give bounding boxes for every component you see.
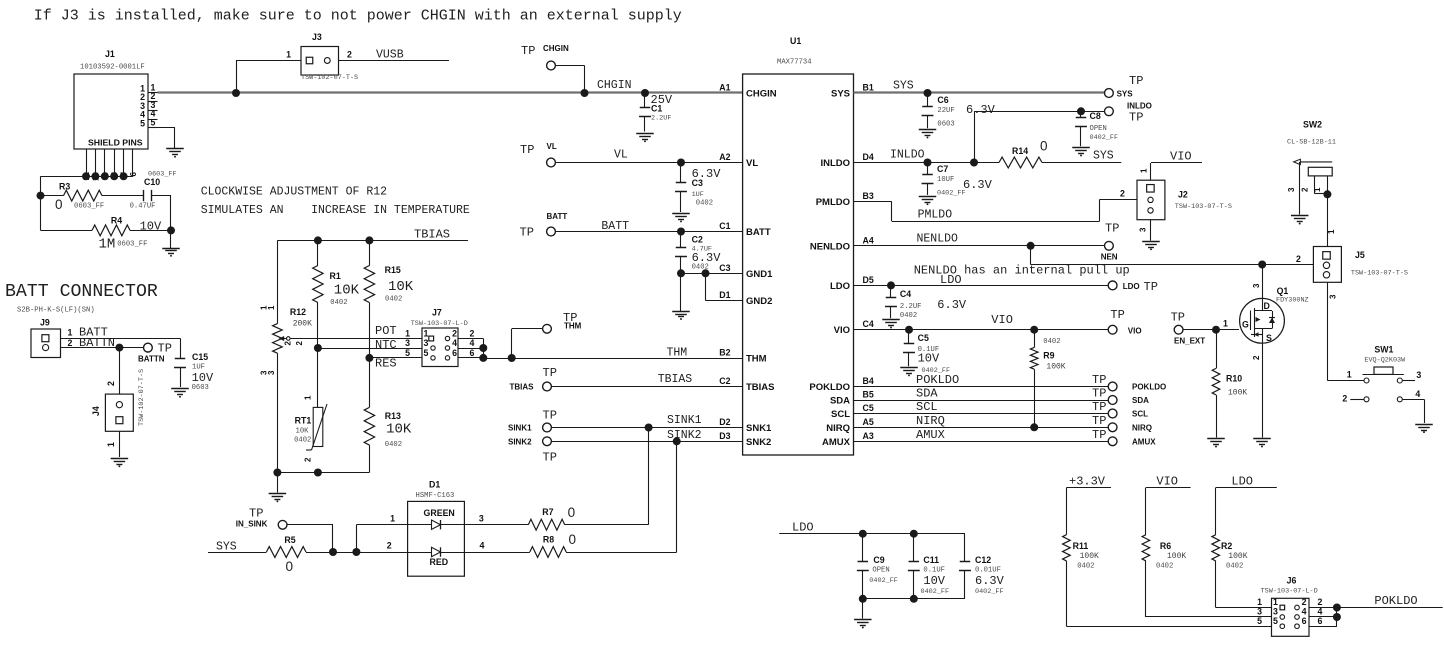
wire POKLDO net [854,386,1109,388]
svg-text:SINK2: SINK2 [667,429,702,442]
R12 wiper arrow [282,338,286,340]
led D1 green element [408,524,465,526]
svg-text:C3: C3 [719,263,730,273]
svg-text:MAX77734: MAX77734 [777,59,812,67]
wire D1 pin4 to R8 [464,552,529,554]
svg-text:CLOCKWISE ADJUSTMENT OF R12: CLOCKWISE ADJUSTMENT OF R12 [201,185,387,198]
svg-text:1: 1 [286,50,291,60]
svg-text:100K: 100K [1167,552,1186,561]
svg-text:2: 2 [1296,254,1301,264]
svg-text:C2: C2 [719,376,730,386]
svg-text:C4: C4 [863,319,874,329]
svg-text:R10: R10 [1226,374,1242,384]
wire SINK2 down to R8 [676,441,678,552]
svg-text:CHGIN: CHGIN [543,44,569,53]
ground (C3) [672,213,690,215]
svg-text:SDA: SDA [830,396,850,407]
wire LDO cap bus [779,533,965,535]
J1 pin 5 stub [148,127,158,129]
node LDO-C4 junction [887,281,895,289]
node SINK1-R7 junction [645,424,653,432]
svg-text:0.47UF: 0.47UF [130,202,156,210]
svg-text:3: 3 [424,338,429,348]
node C11 bottom junction [910,595,918,603]
wire R12 lower [277,353,279,472]
ground (SW1) [1415,424,1433,426]
wire NENLDO net [854,245,1105,247]
resistor R2 100K 0402 [1212,535,1220,561]
svg-text:R9: R9 [1043,351,1054,361]
wire J7 pin2 jog [458,338,483,340]
svg-text:TP: TP [1171,311,1185,325]
svg-text:TP: TP [520,143,534,157]
svg-text:D5: D5 [863,275,874,285]
svg-text:1: 1 [106,442,116,447]
svg-text:2: 2 [470,329,475,339]
svg-text:CL-SB-12B-11: CL-SB-12B-11 [1287,139,1336,147]
wire EN_EXT to Q1 gate [1183,329,1239,331]
svg-text:0603: 0603 [937,121,954,129]
svg-text:OPEN: OPEN [1090,125,1107,133]
J1 pin 4 stub [148,119,158,121]
wire R3 left [41,195,64,197]
svg-text:200K: 200K [293,320,312,329]
wire R3-C10 [102,195,144,197]
svg-text:TP: TP [1092,414,1106,428]
svg-text:SCL: SCL [1132,410,1148,419]
wire SYS to R5 [208,552,266,554]
wire R4 right [130,230,171,232]
svg-text:S: S [1266,333,1272,343]
svg-text:C15: C15 [192,352,208,362]
svg-text:TP: TP [1144,280,1158,294]
node R4-C10 junction [167,226,175,234]
svg-text:R4: R4 [111,216,122,226]
svg-text:RED: RED [430,557,449,567]
ground (divider) [269,493,287,495]
svg-text:J5: J5 [1355,250,1365,260]
ground (C2/GND) [672,311,690,313]
svg-text:SW1: SW1 [1374,345,1393,355]
svg-text:C2: C2 [692,235,703,245]
svg-text:R3: R3 [59,182,70,192]
wire R6 to J6 pin3 [1146,616,1272,618]
svg-text:SDA: SDA [916,387,938,401]
J1 pin 3 stub [148,110,158,112]
svg-text:C7: C7 [937,164,948,174]
svg-text:10K: 10K [334,283,360,299]
wire LDO stub [1216,487,1277,489]
resistor R9 100K 0402 [1034,330,1036,348]
svg-text:SW2: SW2 [1303,120,1322,130]
svg-text:A2: A2 [719,152,730,162]
node NENLDO junction [1027,242,1035,250]
svg-text:CHGIN: CHGIN [746,89,777,100]
svg-text:SHIELD PINS: SHIELD PINS [88,138,143,148]
wire J2 pin3 to ground [1150,220,1152,241]
svg-text:G: G [1242,320,1249,330]
svg-text:SYS: SYS [831,89,850,100]
svg-text:VL: VL [547,142,557,151]
svg-text:C1: C1 [719,221,730,231]
node EN_EXT-R10 junction [1212,326,1220,334]
svg-text:0402: 0402 [330,299,347,307]
svg-text:0402: 0402 [1226,563,1243,571]
svg-text:2: 2 [347,50,352,60]
svg-text:GND1: GND1 [746,269,773,280]
node LDO-C9 junction [859,530,867,538]
svg-text:J9: J9 [40,318,50,328]
svg-text:C6: C6 [937,95,948,105]
svg-text:D1: D1 [719,290,730,300]
svg-text:0: 0 [569,532,577,547]
svg-text:2: 2 [106,381,116,386]
svg-text:D1: D1 [429,480,440,490]
svg-text:POT: POT [375,324,397,338]
ground (C15) [171,388,189,390]
wire THM net [483,358,742,360]
wire VIO stub at J2 [1151,162,1202,164]
svg-text:THM: THM [667,347,688,360]
svg-text:0402_FF: 0402_FF [869,577,898,585]
svg-text:0402: 0402 [1043,338,1060,346]
svg-text:0402: 0402 [1077,563,1094,571]
svg-text:10K: 10K [386,422,412,438]
potentiometer R12 200K [273,324,283,354]
capacitor C15 1UF 10V 0603 [180,338,182,358]
svg-text:0603: 0603 [192,384,209,392]
resistor R11 100K 0402 [1063,535,1071,561]
svg-text:TP: TP [1092,373,1106,387]
svg-text:POKLDO: POKLDO [809,382,850,393]
svg-text:J6: J6 [1287,576,1297,586]
wire INLDO net [854,162,1000,164]
svg-text:10K: 10K [388,279,414,295]
svg-text:TP: TP [1129,111,1143,125]
wire R5 to D1 [306,552,408,554]
svg-text:TP: TP [1092,387,1106,401]
svg-text:1: 1 [1140,168,1149,173]
svg-text:2: 2 [452,329,457,339]
svg-text:NENLDO: NENLDO [810,241,850,252]
svg-text:SYS: SYS [1117,90,1134,99]
svg-text:TSW-103-07-T-S: TSW-103-07-T-S [1351,270,1408,278]
svg-text:10K: 10K [296,428,310,436]
svg-text:1: 1 [1257,597,1262,607]
svg-text:22UF: 22UF [937,107,954,115]
svg-text:B5: B5 [863,390,874,400]
node SYS-C6 junction [924,89,932,97]
ground (R10) [1207,438,1225,440]
node RES junction [365,354,373,362]
svg-text:6: 6 [452,348,457,358]
ground (C1) [636,133,654,135]
svg-text:SYS: SYS [893,80,914,93]
J1 shield pin 11 [86,149,88,176]
svg-text:POKLDO: POKLDO [1132,383,1166,392]
svg-text:NIRQ: NIRQ [1132,423,1152,432]
svg-text:D: D [1264,301,1270,311]
svg-text:SINK2: SINK2 [508,437,532,446]
resistor R8 0 [530,547,566,558]
svg-text:TP: TP [521,44,535,58]
svg-text:A5: A5 [863,417,874,427]
svg-text:TP: TP [543,409,557,423]
svg-text:AMUX: AMUX [1132,437,1156,446]
svg-text:A4: A4 [863,235,874,245]
svg-text:TSW-103-07-T-S: TSW-103-07-T-S [1175,203,1232,211]
svg-text:1: 1 [1313,187,1322,192]
capacitor C8 OPEN 0402_FF [1080,111,1082,117]
svg-text:SCL: SCL [831,409,850,420]
svg-text:0: 0 [1040,139,1048,154]
svg-text:SDA: SDA [1132,396,1149,405]
svg-text:2: 2 [1318,597,1323,607]
node NEN-Q1 junction [1258,261,1266,269]
capacitor C5 0.1UF 10V 0402_FF [908,330,910,344]
ground (C7) [919,196,937,198]
svg-text:VL: VL [746,158,758,169]
svg-text:1: 1 [1347,370,1352,380]
svg-text:R14: R14 [1012,146,1028,156]
svg-text:1: 1 [424,329,429,339]
svg-text:INLDO: INLDO [820,158,850,169]
svg-text:TP: TP [543,366,557,380]
wire J3 pin1 to CHGIN net [236,61,238,94]
svg-text:C3: C3 [692,178,703,188]
J1 pin5 wire to ground [158,127,176,129]
svg-text:5: 5 [405,348,410,358]
wire D1 pin3 to R7 [464,524,528,526]
svg-text:TP: TP [1092,400,1106,414]
svg-text:TP: TP [249,507,263,521]
svg-text:R7: R7 [542,507,553,517]
svg-text:3: 3 [1139,227,1148,232]
wire J7 pin6 stub [458,357,483,359]
svg-text:NENLDO: NENLDO [917,233,959,246]
svg-text:SCL: SCL [916,400,938,414]
node LDO-C11 junction [910,530,918,538]
svg-text:BATTN: BATTN [138,355,165,364]
wire NTC (R1 to J7 pin3) [318,348,422,350]
svg-text:2: 2 [1301,187,1310,192]
wire J9 pin1 BATT [61,338,181,340]
svg-text:D2: D2 [719,417,730,427]
svg-text:LDO: LDO [940,273,962,287]
svg-text:J2: J2 [1178,190,1188,200]
svg-text:C11: C11 [923,555,939,565]
wire R4 left vertical [40,196,42,231]
svg-text:RT1: RT1 [295,416,312,426]
resistor R15 10K 0402 [369,240,371,265]
svg-text:THM: THM [746,354,767,365]
svg-text:THM: THM [564,322,582,331]
node VL-C3 junction [677,159,685,167]
svg-text:B3: B3 [863,191,874,201]
svg-text:0402: 0402 [1156,563,1173,571]
svg-text:R2: R2 [1221,541,1232,551]
svg-text:+3.3V: +3.3V [1069,475,1106,489]
ground (J1 pin5) [166,148,184,150]
wire POT (R12 wiper to J7 pin1) [290,338,422,340]
svg-text:BATT CONNECTOR: BATT CONNECTOR [5,282,158,302]
svg-text:VIO: VIO [1170,150,1192,164]
svg-text:J7: J7 [432,308,442,318]
wire C2 to ground [680,273,682,311]
node GND1-GND2 junction [702,269,710,277]
svg-text:TP: TP [158,342,172,356]
wire BATT net [555,231,742,233]
wire GND2 [706,300,743,302]
node C8 junction [1077,107,1085,115]
svg-text:100K: 100K [1080,552,1099,561]
wire NEN to J5 pin2 [1030,246,1032,265]
resistor R14 0 [999,157,1042,168]
svg-text:2: 2 [1120,189,1125,199]
svg-text:BATT: BATT [601,220,629,233]
node R9-NIRQ junction [1030,423,1038,431]
ground (C6) [919,129,937,131]
ground (J4) [111,458,128,460]
node D1 pin1 branch junction [352,548,360,556]
wire up to C8 row [974,111,976,162]
svg-text:1: 1 [304,395,313,400]
svg-text:10UF: 10UF [937,176,954,184]
wire CHGIN bus (J1 pin1 to U1 A1) [158,91,743,93]
svg-text:SIMULATES AN INCREASE IN TE: SIMULATES AN INCREASE IN TEMPERATURE [201,204,470,217]
svg-text:0402: 0402 [294,437,311,445]
wire C10 right [152,195,171,197]
led D1 red element [408,552,465,554]
capacitor C9 OPEN 0402_FF [862,534,864,562]
svg-text:R11: R11 [1073,541,1089,551]
svg-text:HSMF-C163: HSMF-C163 [416,492,455,500]
capacitor C7 10UF 6.3V 0402_FF [927,163,929,175]
J1 pin 2 stub [148,101,158,103]
svg-text:C5: C5 [863,403,874,413]
svg-text:5: 5 [424,348,429,358]
svg-text:4: 4 [470,338,475,348]
wire SCL net [854,413,1109,415]
svg-text:TSW-102-07-T-S: TSW-102-07-T-S [138,369,146,426]
svg-text:100K: 100K [1046,363,1065,372]
wire J6 pin2 stub [1309,607,1337,609]
svg-text:2.2UF: 2.2UF [900,303,922,311]
svg-text:NIRQ: NIRQ [916,414,945,428]
node VIO-R9 junction [1030,326,1038,334]
wire R7 to SINK1 [565,524,649,526]
svg-text:NTC: NTC [375,338,397,352]
shield pin bus wire [41,176,134,178]
svg-text:6.3V: 6.3V [966,103,996,117]
testpoint TP NEN [1105,241,1114,250]
ground (C5) [900,367,918,369]
svg-text:PMLDO: PMLDO [918,209,953,222]
svg-text:0402_FF: 0402_FF [975,588,1004,596]
wire J6 pin4 stub [1309,616,1337,618]
wire to D1 pin 1 [356,524,407,526]
svg-text:C4: C4 [900,289,911,299]
node BATT-C2 junction [677,228,685,236]
testpoint TP LDO [1108,281,1117,290]
resistor R4 1M 0603_FF 10V [92,225,130,236]
svg-text:NIRQ: NIRQ [826,423,850,434]
svg-text:LDO: LDO [1231,475,1253,489]
wire SYS net (U1 B1 to TP) [854,91,1105,93]
svg-text:VIO: VIO [991,313,1013,327]
svg-text:100K: 100K [1228,552,1247,561]
svg-text:SINK1: SINK1 [508,424,532,433]
svg-text:LDO: LDO [1123,282,1140,291]
wire left branch down to R12 [277,240,279,323]
svg-text:LDO: LDO [830,281,850,292]
svg-text:INLDO: INLDO [890,149,925,162]
svg-text:R5: R5 [284,535,295,545]
wire TBIAS top [277,240,468,242]
connector J5 TSW-103-07-T-S [1313,247,1341,283]
ground (SW2) [1291,215,1309,217]
svg-text:GREEN: GREEN [424,508,455,518]
svg-text:AMUX: AMUX [916,428,945,442]
svg-text:1: 1 [68,328,73,338]
svg-text:6.3V: 6.3V [963,178,993,192]
svg-text:1: 1 [390,514,395,524]
node CHGIN-C1 junction [641,89,649,97]
node NTC junction [314,344,322,352]
svg-text:1M: 1M [99,237,116,253]
testpoint TP BATTN [144,343,153,352]
svg-text:5: 5 [151,117,156,127]
svg-text:A3: A3 [863,431,874,441]
ground (C4) [882,319,900,321]
svg-text:C8: C8 [1090,111,1101,121]
node INLDO-C8branch junction [970,159,978,167]
svg-text:R12: R12 [290,307,306,317]
svg-text:6.3V: 6.3V [937,298,967,312]
node shield-R3 junction [37,192,45,200]
svg-text:5: 5 [140,118,145,128]
node GND1 junction at C2 [677,269,685,277]
svg-text:2: 2 [1342,394,1347,404]
wire Q1 source to ground [1262,343,1264,437]
svg-text:INLDO: INLDO [1127,102,1152,111]
wire J9 pin2 BATTN [61,347,144,349]
svg-text:1: 1 [1327,229,1336,234]
svg-text:EN_EXT: EN_EXT [1174,337,1205,346]
svg-text:B1: B1 [863,83,874,93]
svg-text:0603_FF: 0603_FF [117,241,147,249]
svg-text:If J3 is installed, make sure: If J3 is installed, make sure to not pow… [34,8,682,25]
svg-text:0402_FF: 0402_FF [937,190,966,198]
svg-text:2: 2 [1302,597,1307,607]
svg-text:J4: J4 [91,406,101,416]
svg-text:R15: R15 [385,265,401,275]
ground (R4) [162,248,180,250]
svg-text:2: 2 [304,457,313,462]
node INLDO-C7 junction [924,159,932,167]
svg-text:U1: U1 [790,36,801,46]
svg-text:1: 1 [267,305,276,310]
capacitor C6 22UF 0603 [927,93,929,106]
wire J7 pin4 stub [458,348,483,350]
svg-text:100K: 100K [1228,389,1247,398]
svg-text:3: 3 [479,514,484,524]
connector J4 TSW-102-07-T-S [119,348,121,395]
svg-text:4: 4 [452,338,457,348]
svg-text:SYS: SYS [216,541,237,554]
svg-text:GND2: GND2 [746,296,772,307]
wire SINK2 net [551,441,742,443]
